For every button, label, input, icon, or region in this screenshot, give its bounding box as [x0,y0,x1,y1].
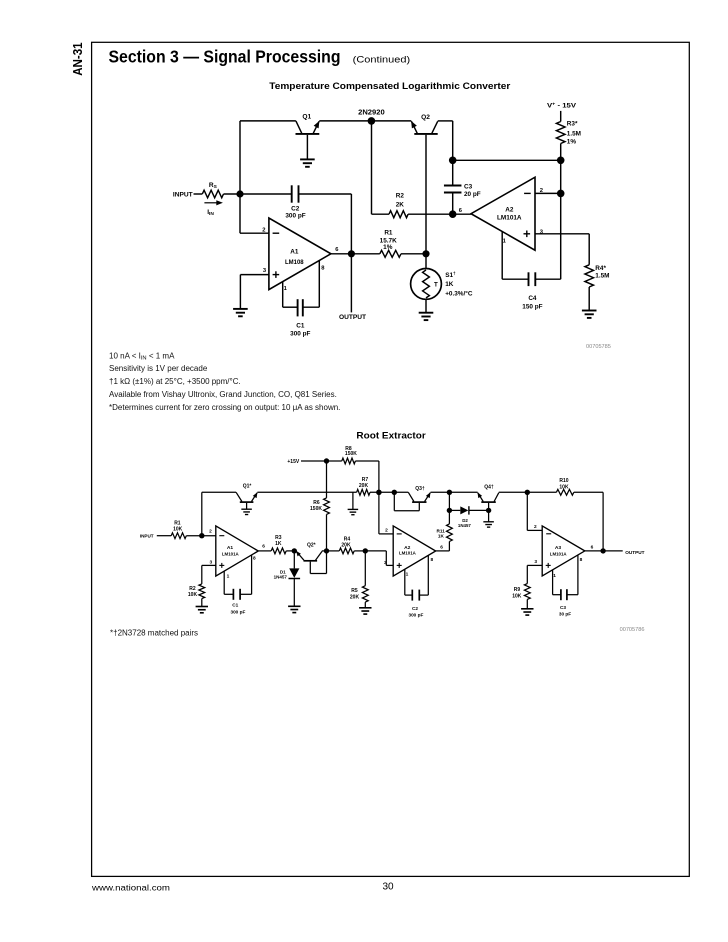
svg-text:300 pF: 300 pF [290,331,310,338]
svg-text:Q1: Q1 [302,113,311,120]
svg-text:1N457: 1N457 [274,575,288,580]
svg-text:6: 6 [459,208,463,214]
svg-text:IIN: IIN [207,209,214,217]
svg-text:300 pF: 300 pF [408,612,423,617]
svg-text:3: 3 [263,268,267,274]
svg-text:R5: R5 [351,588,358,594]
svg-text:A1: A1 [290,249,299,256]
svg-text:Q3†: Q3† [415,486,425,492]
svg-text:1K: 1K [438,534,445,539]
svg-text:1%: 1% [383,244,393,251]
svg-text:INPUT: INPUT [173,191,193,198]
svg-text:10K: 10K [188,592,198,598]
svg-text:1: 1 [553,573,556,579]
svg-text:150 pF: 150 pF [522,304,542,311]
svg-text:†1 kΩ (±1%) at 25°C, +3500 ppm: †1 kΩ (±1%) at 25°C, +3500 ppm/°C. [109,377,241,386]
svg-text:6: 6 [591,544,594,550]
svg-text:6: 6 [335,247,339,253]
svg-text:R10: R10 [559,478,568,484]
svg-text:R2: R2 [396,193,405,200]
svg-text:00705785: 00705785 [586,344,611,350]
svg-text:Q4†: Q4† [484,484,494,490]
svg-text:8: 8 [321,265,325,271]
svg-text:R9: R9 [514,587,521,593]
svg-text:LM101A: LM101A [497,214,522,221]
svg-text:2: 2 [209,528,212,534]
svg-text:1.5M: 1.5M [595,273,609,280]
svg-text:Q2*: Q2* [307,542,316,548]
svg-text:INPUT: INPUT [140,533,154,538]
svg-text:30 pF: 30 pF [559,612,571,617]
svg-text:+15V: +15V [287,459,299,465]
svg-text:8: 8 [430,557,433,563]
svg-text:C2: C2 [412,606,418,611]
svg-text:S1†: S1† [445,271,456,279]
svg-text:1K: 1K [275,541,282,547]
svg-text:3: 3 [534,559,537,565]
svg-text:C1: C1 [232,603,238,608]
svg-text:(Continued): (Continued) [353,55,411,66]
svg-text:10K: 10K [559,484,569,490]
svg-text:150K: 150K [310,506,322,512]
svg-text:A2: A2 [505,206,514,213]
svg-text:C4: C4 [528,295,537,302]
svg-text:30: 30 [382,882,394,893]
svg-text:C3: C3 [560,605,566,610]
svg-text:AN-31: AN-31 [70,42,85,75]
svg-text:A3: A3 [555,545,562,551]
svg-text:10K: 10K [173,526,183,532]
svg-text:1.5M: 1.5M [567,130,581,137]
svg-text:10 nA < IIN < 1 mA: 10 nA < IIN < 1 mA [109,351,175,361]
svg-text:+0.3%/°C: +0.3%/°C [445,289,473,297]
svg-text:C1: C1 [296,323,305,330]
svg-text:2K: 2K [396,201,405,208]
svg-text:R4*: R4* [595,265,606,272]
svg-text:RS: RS [209,182,218,190]
svg-text:300 pF: 300 pF [285,212,305,219]
svg-text:1K: 1K [445,281,454,288]
svg-text:C3: C3 [464,183,473,190]
svg-text:OUTPUT: OUTPUT [339,314,366,321]
svg-text:R4: R4 [344,536,351,542]
svg-text:*Determines current for zero c: *Determines current for zero crossing on… [109,403,340,412]
svg-text:LM101A: LM101A [222,551,240,556]
svg-text:R11: R11 [437,528,446,533]
svg-text:LM101A: LM101A [550,551,568,556]
svg-text:10K: 10K [512,593,522,599]
svg-text:V+ - 15V: V+ - 15V [547,102,577,110]
svg-text:Root Extractor: Root Extractor [356,429,426,440]
svg-text:2: 2 [385,527,388,533]
svg-text:1: 1 [227,574,230,580]
svg-text:20K: 20K [359,483,369,489]
svg-text:LM108: LM108 [285,260,304,266]
svg-text:3: 3 [209,559,212,565]
svg-text:T: T [434,281,438,288]
svg-text:2: 2 [262,227,265,233]
svg-text:1: 1 [503,238,507,244]
svg-text:300 pF: 300 pF [230,610,245,615]
svg-text:Sensitivity is 1V per decade: Sensitivity is 1V per decade [109,364,208,373]
svg-text:20K: 20K [350,594,360,600]
svg-text:OUTPUT: OUTPUT [625,550,644,555]
svg-text:Temperature Compensated Logari: Temperature Compensated Logarithmic Conv… [269,81,510,91]
svg-text:1%: 1% [567,139,577,146]
svg-text:3: 3 [384,560,387,566]
svg-text:1: 1 [406,571,409,577]
svg-text:2N2920: 2N2920 [358,108,385,117]
svg-text:LM101A: LM101A [399,550,417,555]
svg-text:R1: R1 [384,230,393,237]
svg-text:*†2N3728 matched pairs: *†2N3728 matched pairs [110,629,198,638]
svg-text:C2: C2 [291,205,300,212]
svg-text:8: 8 [580,557,583,563]
svg-text:1N457: 1N457 [458,523,471,528]
svg-text:2: 2 [534,524,537,530]
svg-text:www.national.com: www.national.com [91,882,170,892]
svg-text:R7: R7 [362,477,369,483]
svg-text:Q2: Q2 [421,114,430,121]
svg-text:6: 6 [440,545,443,551]
svg-text:20K: 20K [341,543,351,549]
svg-text:20 pF: 20 pF [464,191,481,198]
svg-text:6: 6 [262,544,265,550]
svg-text:Section 3 — Signal Processing: Section 3 — Signal Processing [109,47,341,67]
svg-text:Q1*: Q1* [243,483,252,489]
svg-text:A1: A1 [227,545,234,551]
svg-text:Available from Vishay Ultronix: Available from Vishay Ultronix, Grand Ju… [109,390,337,399]
svg-text:150K: 150K [345,451,357,457]
svg-text:00705786: 00705786 [620,627,645,633]
svg-text:1: 1 [284,286,288,292]
svg-text:R3*: R3* [567,121,578,128]
svg-text:8: 8 [253,556,256,562]
